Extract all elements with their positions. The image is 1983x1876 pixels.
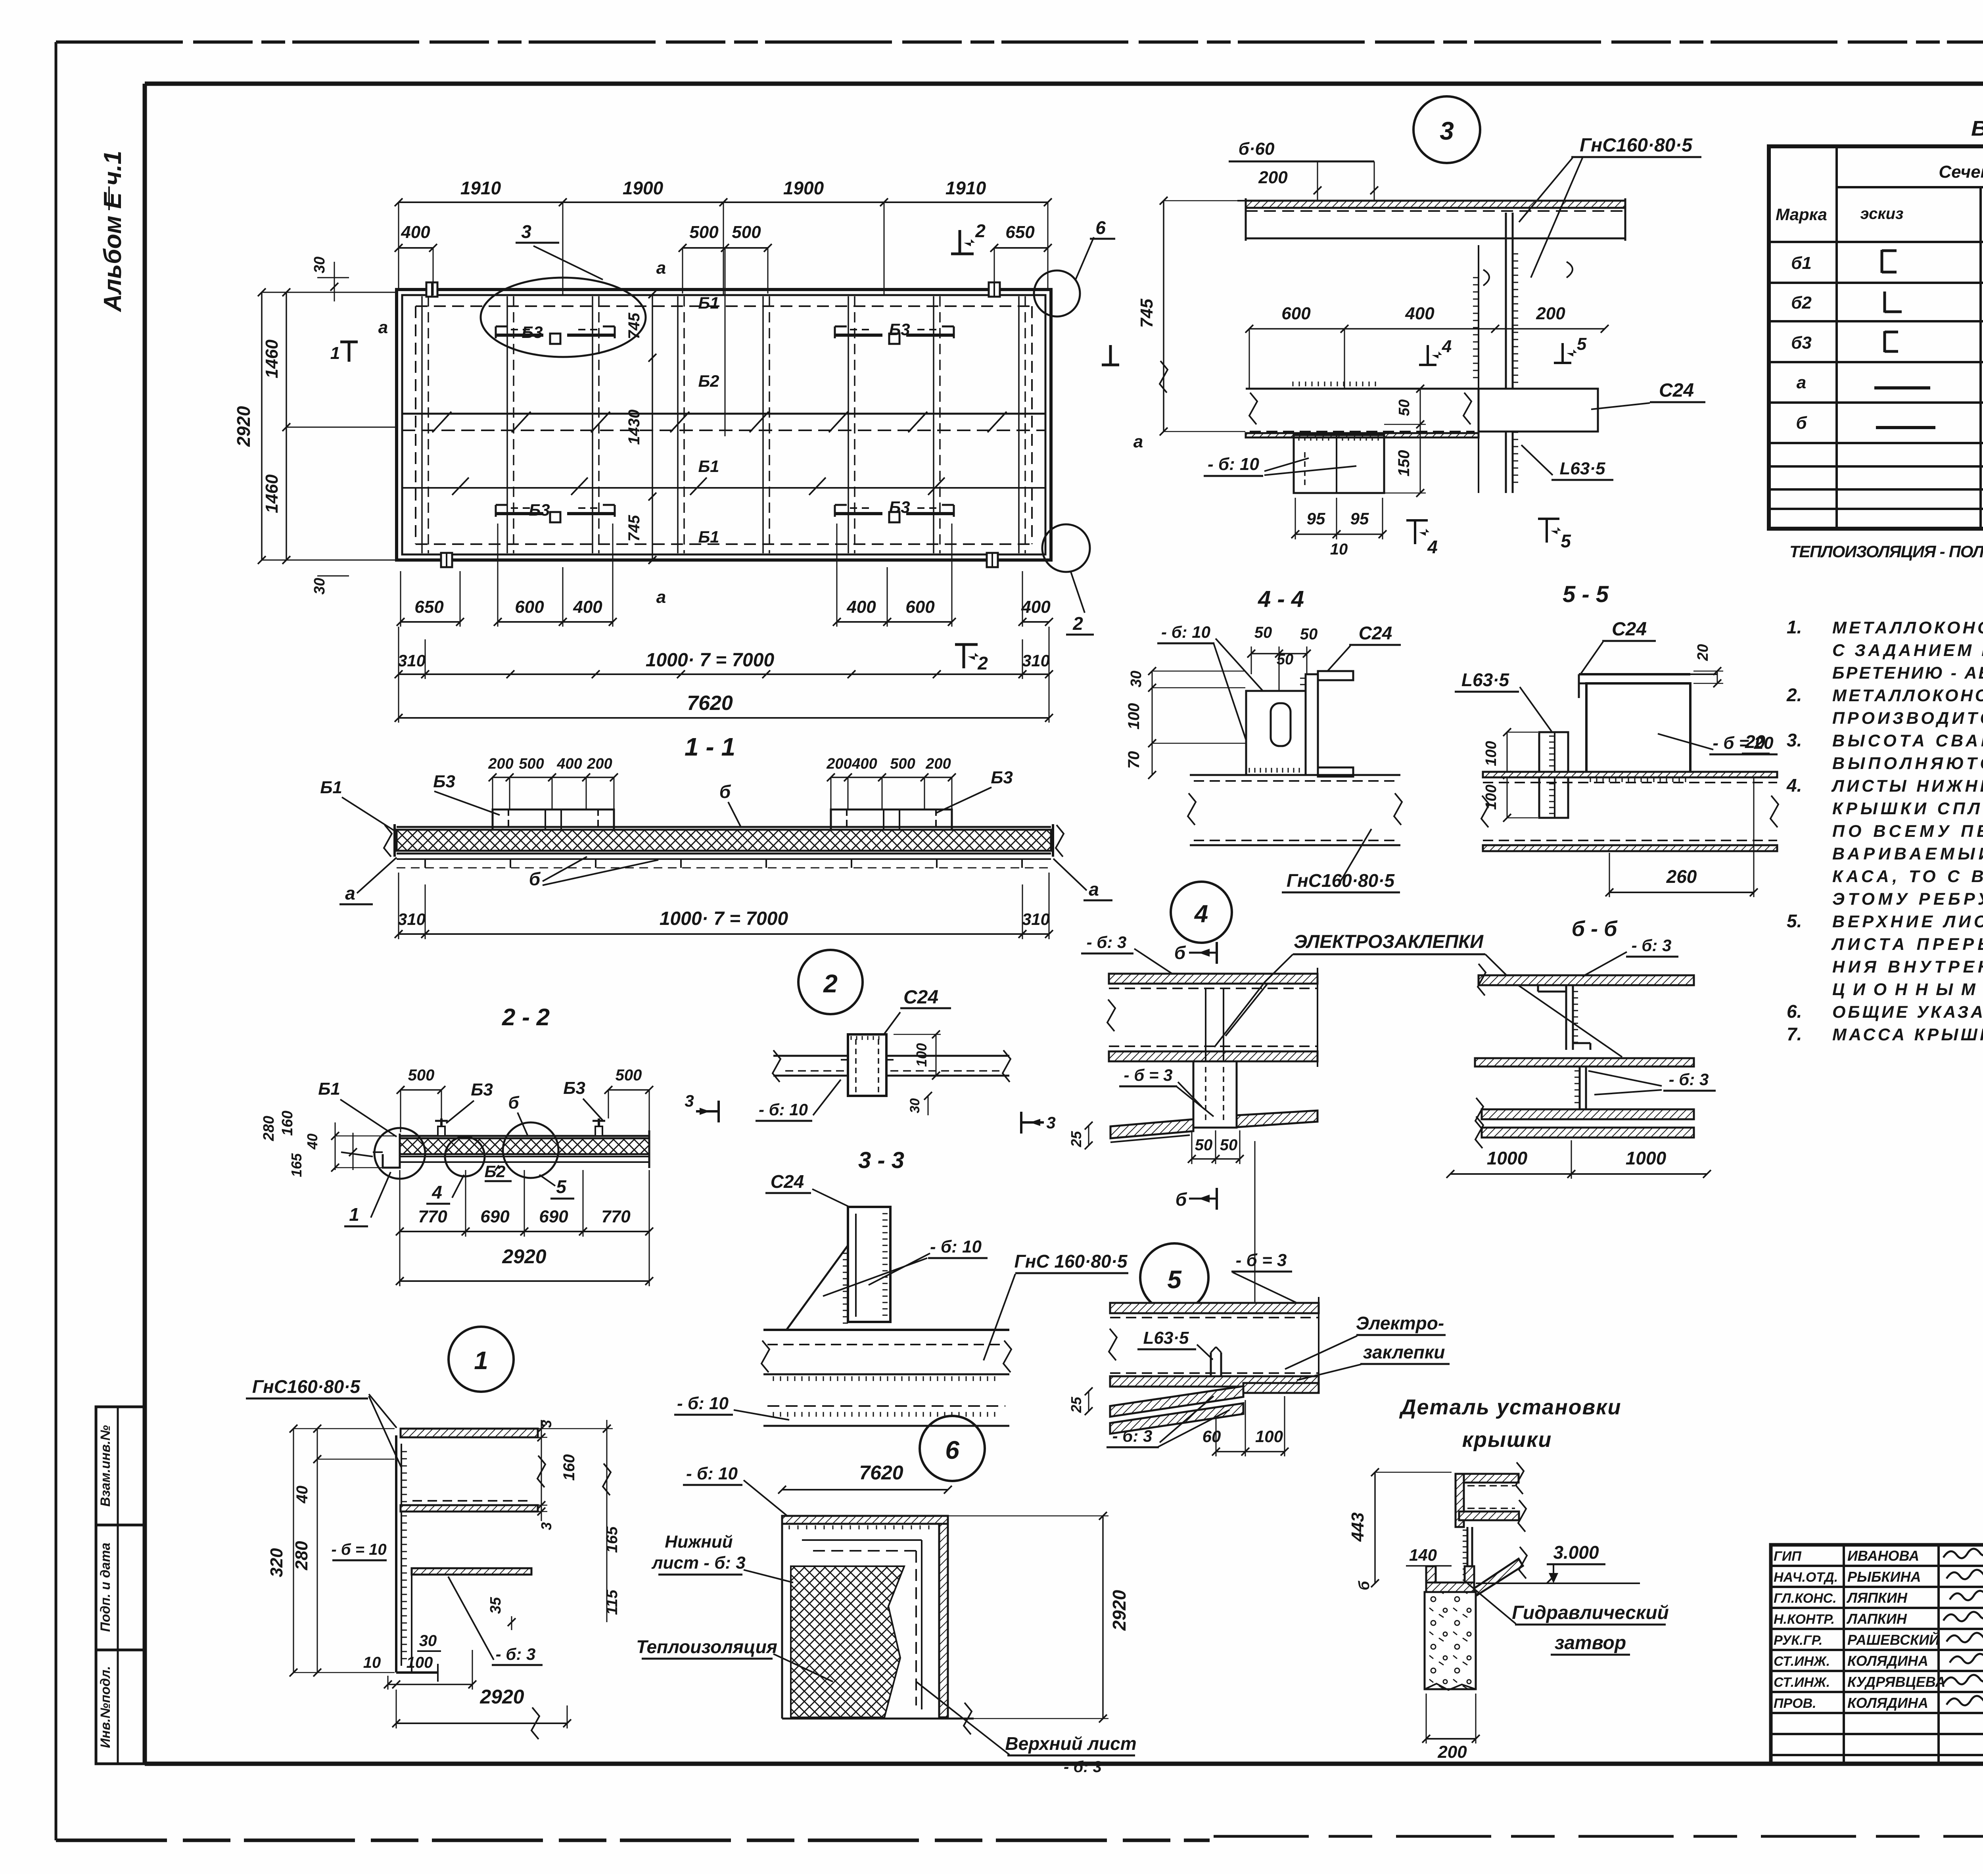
svg-text:Нижний: Нижний [665, 1532, 733, 1552]
svg-text:200: 200 [826, 756, 852, 772]
svg-text:50: 50 [1277, 651, 1293, 668]
svg-text:L63·5: L63·5 [1461, 669, 1510, 690]
svg-text:2920: 2920 [502, 1245, 546, 1268]
svg-text:С24: С24 [1612, 619, 1647, 640]
svg-text:745: 745 [625, 515, 643, 541]
svg-text:2: 2 [1072, 613, 1083, 634]
svg-text:Электро-: Электро- [1356, 1313, 1444, 1333]
svg-text:С24: С24 [771, 1171, 804, 1192]
svg-text:Н.КОНТР.: Н.КОНТР. [1774, 1612, 1835, 1627]
svg-text:400: 400 [846, 597, 876, 617]
svg-text:ПРОВ.: ПРОВ. [1774, 1696, 1816, 1711]
svg-text:ГнС160·80·5: ГнС160·80·5 [1580, 135, 1693, 156]
svg-text:1000: 1000 [1487, 1148, 1528, 1168]
svg-text:500: 500 [408, 1067, 435, 1084]
svg-text:10: 10 [1330, 541, 1348, 558]
svg-text:100: 100 [1255, 1427, 1283, 1446]
svg-text:500: 500 [890, 756, 915, 772]
svg-text:1000: 1000 [1626, 1148, 1667, 1168]
svg-text:а: а [345, 883, 355, 903]
svg-text:7620: 7620 [859, 1462, 903, 1484]
svg-text:б3: б3 [1791, 333, 1812, 353]
svg-text:3: 3 [538, 1420, 554, 1428]
svg-text:1460: 1460 [262, 340, 282, 378]
svg-text:ГнС 160·80·5: ГнС 160·80·5 [1014, 1251, 1128, 1272]
svg-text:Б1: Б1 [318, 1079, 340, 1099]
svg-text:600: 600 [515, 597, 544, 617]
svg-text:Взам.инв.№: Взам.инв.№ [98, 1425, 113, 1507]
svg-text:5.: 5. [1787, 911, 1802, 931]
svg-text:95: 95 [1350, 509, 1369, 528]
svg-text:3 - 3: 3 - 3 [858, 1147, 904, 1173]
svg-text:1900: 1900 [623, 178, 664, 198]
svg-text:400: 400 [852, 756, 877, 772]
svg-text:5: 5 [1561, 531, 1571, 551]
svg-text:ГЛ.КОНС.: ГЛ.КОНС. [1774, 1591, 1837, 1606]
svg-text:СТ.ИНЖ.: СТ.ИНЖ. [1774, 1654, 1830, 1669]
svg-text:60: 60 [1202, 1427, 1221, 1446]
svg-text:- б: 3: - б: 3 [1669, 1070, 1709, 1089]
svg-text:30: 30 [1128, 671, 1145, 687]
svg-text:5: 5 [1167, 1265, 1182, 1294]
svg-text:Подп. и дата: Подп. и дата [98, 1542, 113, 1632]
svg-text:200: 200 [1437, 1742, 1467, 1762]
svg-text:- б: 3: - б: 3 [1087, 933, 1127, 951]
svg-text:745: 745 [1137, 299, 1156, 328]
svg-text:770: 770 [418, 1207, 447, 1226]
svg-text:4: 4 [1194, 900, 1208, 928]
svg-text:1000· 7 = 7000: 1000· 7 = 7000 [660, 908, 788, 929]
svg-text:1910: 1910 [945, 178, 986, 198]
svg-text:б1: б1 [1791, 253, 1812, 273]
svg-text:50: 50 [1254, 624, 1272, 641]
svg-text:2.: 2. [1786, 685, 1802, 705]
svg-text:- б = 20: - б = 20 [1713, 733, 1774, 753]
svg-text:Инв.№подл.: Инв.№подл. [98, 1666, 113, 1748]
svg-text:ПРОИЗВОДИТСЯ ЭЛЕКТРОДАМИ ТИПА: ПРОИЗВОДИТСЯ ЭЛЕКТРОДАМИ ТИПА Э42 ГОСТ 9… [1832, 709, 1983, 728]
svg-text:100: 100 [1483, 741, 1500, 766]
svg-text:2920: 2920 [479, 1686, 524, 1708]
svg-text:1 - 1: 1 - 1 [685, 733, 735, 761]
svg-text:крышки: крышки [1462, 1428, 1552, 1452]
svg-text:690: 690 [480, 1207, 510, 1226]
svg-text:б: б [1796, 413, 1807, 433]
svg-text:а: а [1089, 879, 1099, 900]
svg-text:1: 1 [474, 1346, 488, 1375]
svg-text:770: 770 [601, 1207, 631, 1226]
svg-text:310: 310 [1022, 910, 1050, 928]
svg-text:б - б: б - б [1572, 917, 1618, 941]
svg-text:50: 50 [1220, 1136, 1238, 1154]
svg-text:600: 600 [1281, 304, 1311, 323]
svg-text:70: 70 [1125, 751, 1143, 769]
svg-text:Б3: Б3 [563, 1078, 585, 1098]
svg-text:Гидравлический: Гидравлический [1512, 1602, 1669, 1623]
svg-text:С24: С24 [1659, 380, 1694, 401]
svg-text:310: 310 [398, 651, 426, 670]
svg-text:7.: 7. [1787, 1024, 1802, 1044]
svg-text:Сечение: Сечение [1939, 162, 1983, 182]
svg-text:100: 100 [1483, 785, 1500, 809]
svg-text:Б3: Б3 [471, 1080, 493, 1099]
svg-text:4.: 4. [1786, 775, 1802, 796]
svg-text:L63·5: L63·5 [1560, 459, 1605, 478]
svg-text:50: 50 [1396, 399, 1413, 416]
svg-text:заклепки: заклепки [1363, 1342, 1445, 1362]
svg-text:690: 690 [539, 1207, 568, 1226]
svg-text:С ЗАДАНИЕМ ИН-ТА ГИПРОСТРОММАШ: С ЗАДАНИЕМ ИН-ТА ГИПРОСТРОММАШ И ОПИСАНИ… [1832, 641, 1983, 660]
svg-text:500: 500 [732, 223, 761, 242]
svg-text:1460: 1460 [262, 474, 282, 513]
svg-text:115: 115 [603, 1589, 621, 1615]
svg-text:б: б [508, 1093, 520, 1113]
svg-text:СТ.ИНЖ.: СТ.ИНЖ. [1774, 1675, 1830, 1690]
svg-text:ТЕПЛОИЗОЛЯЦИЯ - ПОЛУЖЕСТКИЕ МИ: ТЕПЛОИЗОЛЯЦИЯ - ПОЛУЖЕСТКИЕ МИНЕРАЛОВАТН… [1789, 542, 1983, 561]
svg-text:б2: б2 [1791, 293, 1812, 313]
svg-text:320: 320 [267, 1548, 286, 1577]
svg-text:РЫБКИНА: РЫБКИНА [1847, 1569, 1921, 1585]
svg-text:150: 150 [1395, 450, 1413, 477]
svg-text:6: 6 [1095, 217, 1106, 238]
svg-text:165: 165 [288, 1153, 305, 1177]
svg-text:ЛЯПКИН: ЛЯПКИН [1846, 1590, 1908, 1606]
svg-text:6: 6 [945, 1436, 959, 1464]
svg-text:4: 4 [1427, 537, 1438, 557]
svg-text:а: а [1133, 432, 1143, 451]
svg-text:650: 650 [414, 597, 444, 617]
svg-text:1: 1 [349, 1204, 359, 1225]
svg-text:10: 10 [363, 1654, 381, 1671]
svg-text:6.: 6. [1787, 1001, 1802, 1022]
svg-text:С24: С24 [1359, 623, 1392, 643]
svg-text:С24: С24 [903, 987, 938, 1008]
svg-text:1900: 1900 [783, 178, 824, 198]
svg-text:Б1: Б1 [698, 293, 719, 312]
svg-text:165: 165 [603, 1526, 621, 1553]
svg-text:- б: 10: - б: 10 [677, 1394, 729, 1413]
svg-text:Деталь установки: Деталь установки [1399, 1395, 1621, 1419]
svg-text:100: 100 [407, 1654, 433, 1671]
svg-text:б·60: б·60 [1239, 139, 1275, 159]
svg-text:Верхний лист: Верхний лист [1005, 1733, 1136, 1754]
svg-text:Альбом Е ч.1: Альбом Е ч.1 [99, 151, 127, 313]
svg-text:Б2: Б2 [698, 372, 719, 390]
svg-text:200: 200 [1258, 168, 1288, 187]
svg-text:25: 25 [1068, 1131, 1084, 1147]
svg-text:3.000: 3.000 [1553, 1542, 1599, 1563]
svg-text:ГнС160·80·5: ГнС160·80·5 [252, 1376, 361, 1397]
svg-text:50: 50 [1195, 1136, 1213, 1154]
svg-text:100: 100 [913, 1043, 930, 1067]
svg-text:- б = 10: - б = 10 [331, 1541, 386, 1558]
svg-text:1430: 1430 [625, 410, 643, 445]
svg-text:б: б [1174, 942, 1186, 963]
svg-text:2920: 2920 [233, 406, 254, 447]
svg-text:эскиз: эскиз [1860, 205, 1904, 223]
svg-text:100: 100 [1125, 703, 1143, 730]
svg-text:а: а [1797, 373, 1806, 392]
svg-text:3: 3 [538, 1522, 554, 1530]
svg-text:7620: 7620 [687, 692, 733, 715]
svg-text:КРЫШКИ СПЛОШНЫМ ШВОМ h= 3 ММ С: КРЫШКИ СПЛОШНЫМ ШВОМ h= 3 ММ С НАРУЖНОЙ … [1832, 798, 1983, 818]
svg-text:Б3: Б3 [991, 768, 1013, 787]
svg-text:600: 600 [905, 597, 935, 617]
svg-text:400: 400 [401, 223, 430, 242]
svg-text:ЭЛЕКТРОЗАКЛЕПКИ: ЭЛЕКТРОЗАКЛЕПКИ [1294, 931, 1484, 952]
svg-text:- б = 3: - б = 3 [1124, 1066, 1173, 1084]
svg-text:400: 400 [1021, 597, 1051, 617]
svg-text:Б3: Б3 [889, 498, 910, 516]
svg-text:а: а [378, 318, 388, 337]
svg-text:500: 500 [616, 1067, 642, 1084]
svg-text:4 - 4: 4 - 4 [1258, 586, 1304, 612]
svg-text:30: 30 [419, 1632, 437, 1650]
svg-text:3: 3 [521, 221, 531, 242]
svg-text:ГИП: ГИП [1774, 1549, 1802, 1564]
svg-text:30: 30 [907, 1098, 922, 1113]
svg-text:МЕТАЛЛОКОНСТРУКЦИЯ КРЫШКИ ВЫПО: МЕТАЛЛОКОНСТРУКЦИЯ КРЫШКИ ВЫПОЛНЯЕТСЯ СВ… [1832, 685, 1983, 705]
svg-text:5: 5 [556, 1176, 567, 1197]
svg-text:- б: 10: - б: 10 [1208, 455, 1259, 474]
svg-text:1910: 1910 [460, 178, 501, 198]
svg-text:L63·5: L63·5 [1143, 1328, 1189, 1348]
svg-text:400: 400 [1405, 304, 1435, 323]
svg-text:280: 280 [261, 1116, 277, 1141]
svg-text:260: 260 [1666, 866, 1697, 887]
svg-text:Б1: Б1 [698, 457, 719, 476]
svg-text:2920: 2920 [1109, 1590, 1130, 1631]
svg-text:2: 2 [975, 221, 986, 241]
svg-text:310: 310 [398, 910, 426, 928]
svg-text:Теплоизоляция: Теплоизоляция [636, 1636, 777, 1657]
svg-text:95: 95 [1307, 509, 1325, 528]
svg-text:РАШЕВСКИЙ: РАШЕВСКИЙ [1847, 1631, 1940, 1648]
svg-text:160: 160 [279, 1111, 296, 1136]
svg-text:200: 200 [1536, 304, 1565, 323]
svg-text:140: 140 [1409, 1546, 1437, 1564]
svg-text:б: б [1356, 1581, 1373, 1590]
svg-text:НАЧ.ОТД.: НАЧ.ОТД. [1774, 1570, 1838, 1585]
svg-text:2: 2 [977, 653, 988, 673]
svg-text:200: 200 [587, 756, 612, 772]
svg-text:4: 4 [432, 1182, 442, 1203]
svg-text:5 - 5: 5 - 5 [1563, 581, 1609, 607]
svg-text:745: 745 [625, 313, 643, 339]
svg-text:1: 1 [330, 343, 340, 363]
svg-text:Б1: Б1 [320, 778, 342, 797]
svg-text:Б3: Б3 [529, 501, 550, 519]
svg-text:500: 500 [689, 223, 719, 242]
svg-text:30: 30 [311, 578, 328, 595]
svg-text:2 - 2: 2 - 2 [502, 1004, 550, 1030]
svg-text:5: 5 [1577, 334, 1587, 354]
svg-text:200: 200 [488, 756, 513, 772]
svg-text:400: 400 [556, 756, 582, 772]
svg-text:- б = 3: - б = 3 [1236, 1251, 1287, 1270]
svg-text:50: 50 [1300, 625, 1318, 643]
svg-text:500: 500 [519, 756, 544, 772]
svg-text:310: 310 [1022, 651, 1050, 670]
svg-text:Б1: Б1 [698, 528, 719, 546]
svg-text:МАССА КРЫШКИ С ТЕПЛОВОЙ ИЗОЛЯЦ: МАССА КРЫШКИ С ТЕПЛОВОЙ ИЗОЛЯЦИЕЙ - 3.6Т [1832, 1024, 1983, 1044]
svg-text:40: 40 [304, 1134, 320, 1150]
svg-text:Б2: Б2 [484, 1162, 505, 1181]
svg-text:3: 3 [685, 1091, 694, 1110]
svg-text:б: б [719, 781, 731, 802]
svg-text:200: 200 [925, 756, 951, 772]
svg-text:- б: 10: - б: 10 [930, 1237, 982, 1256]
svg-text:Марка: Марка [1776, 205, 1827, 224]
svg-text:а: а [656, 258, 666, 278]
svg-text:РУК.ГР.: РУК.ГР. [1774, 1633, 1823, 1648]
svg-text:ИВАНОВА: ИВАНОВА [1847, 1548, 1919, 1564]
svg-text:1000· 7 = 7000: 1000· 7 = 7000 [646, 650, 775, 671]
svg-text:- б: 10: - б: 10 [1161, 623, 1210, 641]
svg-text:400: 400 [573, 597, 602, 617]
svg-text:35: 35 [487, 1597, 504, 1614]
svg-text:3: 3 [1440, 117, 1454, 145]
svg-text:443: 443 [1348, 1512, 1367, 1542]
svg-text:Б3: Б3 [522, 323, 543, 341]
svg-text:650: 650 [1005, 223, 1035, 242]
svg-text:3: 3 [1046, 1113, 1055, 1132]
svg-text:Б3: Б3 [889, 320, 910, 339]
svg-text:280: 280 [292, 1541, 311, 1571]
svg-text:ВЫПОЛНЯЮТСЯ ПО ВСЕЙ ДЛИНЕ ПРИМ: ВЫПОЛНЯЮТСЯ ПО ВСЕЙ ДЛИНЕ ПРИМЫКАНИЯ ЭЛЕ… [1832, 753, 1983, 773]
svg-text:затвор: затвор [1555, 1632, 1626, 1653]
svg-text:1.: 1. [1787, 617, 1802, 637]
svg-text:Б3: Б3 [433, 772, 455, 791]
svg-text:а: а [656, 587, 666, 607]
svg-text:- б: 3: - б: 3 [1112, 1427, 1153, 1445]
svg-text:25: 25 [1068, 1396, 1084, 1413]
svg-text:лист - б: 3: лист - б: 3 [651, 1553, 746, 1573]
svg-text:б: б [529, 869, 541, 889]
svg-text:КОЛЯДИНА: КОЛЯДИНА [1847, 1695, 1928, 1711]
svg-text:4: 4 [1442, 337, 1452, 356]
svg-text:3.: 3. [1787, 730, 1802, 750]
svg-text:КОЛЯДИНА: КОЛЯДИНА [1847, 1653, 1928, 1669]
svg-text:ЛАПКИН: ЛАПКИН [1846, 1611, 1907, 1627]
svg-text:30: 30 [311, 257, 328, 273]
svg-text:2: 2 [823, 969, 838, 998]
svg-text:ВЫСОТА СВАРНЫХ ШВОВ КАРКАСА КР: ВЫСОТА СВАРНЫХ ШВОВ КАРКАСА КРЫШКИ h= 5 … [1832, 731, 1983, 750]
svg-text:- б: 3: - б: 3 [1064, 1758, 1102, 1776]
svg-text:ВЕРХНИЕ ЛИСТЫ ПРИВАРИВАЮТСЯ К: ВЕРХНИЕ ЛИСТЫ ПРИВАРИВАЮТСЯ К КАРКАСУ ПО… [1832, 912, 1983, 931]
svg-text:160: 160 [560, 1454, 578, 1481]
svg-text:- б: 10: - б: 10 [759, 1100, 808, 1119]
svg-text:БРЕТЕНИЮ - АВТОРСКОЕ СВИДЕТЕЛЬ: БРЕТЕНИЮ - АВТОРСКОЕ СВИДЕТЕЛЬСТВО Н 540… [1832, 664, 1983, 683]
svg-text:б: б [1176, 1189, 1187, 1210]
svg-text:- б: 3: - б: 3 [496, 1645, 536, 1663]
svg-text:- б: 10: - б: 10 [686, 1464, 738, 1483]
svg-text:- б: 3: - б: 3 [1632, 936, 1672, 955]
svg-text:40: 40 [293, 1486, 311, 1504]
svg-text:ВЕДОМОСТЬ: ВЕДОМОСТЬ [1971, 117, 1983, 140]
svg-text:20: 20 [1695, 644, 1711, 661]
svg-text:КУДРЯВЦЕВА: КУДРЯВЦЕВА [1847, 1674, 1945, 1690]
